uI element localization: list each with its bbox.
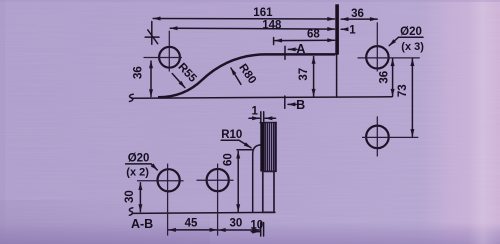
svg-text:Ø20: Ø20 [128,153,150,165]
svg-text:36: 36 [351,8,364,20]
svg-text:36: 36 [379,71,391,84]
svg-text:73: 73 [397,84,409,97]
svg-text:45: 45 [185,217,198,229]
svg-text:148: 148 [262,20,282,32]
svg-text:30: 30 [124,190,136,203]
svg-text:37: 37 [298,68,310,81]
svg-text:36: 36 [133,66,145,79]
svg-text:10: 10 [250,219,263,231]
svg-text:1: 1 [251,105,258,117]
svg-text:R10: R10 [221,129,242,141]
svg-text:A-B: A-B [131,217,153,231]
svg-text:30: 30 [230,217,243,229]
svg-text:(x 2): (x 2) [126,166,149,178]
svg-text:1: 1 [349,25,356,37]
svg-text:Ø20: Ø20 [400,26,422,38]
svg-text:B: B [296,98,305,112]
svg-text:161: 161 [253,7,273,19]
svg-text:(x 3): (x 3) [401,41,424,53]
svg-text:A: A [296,42,305,56]
svg-text:68: 68 [307,29,320,41]
svg-text:60: 60 [222,153,234,166]
